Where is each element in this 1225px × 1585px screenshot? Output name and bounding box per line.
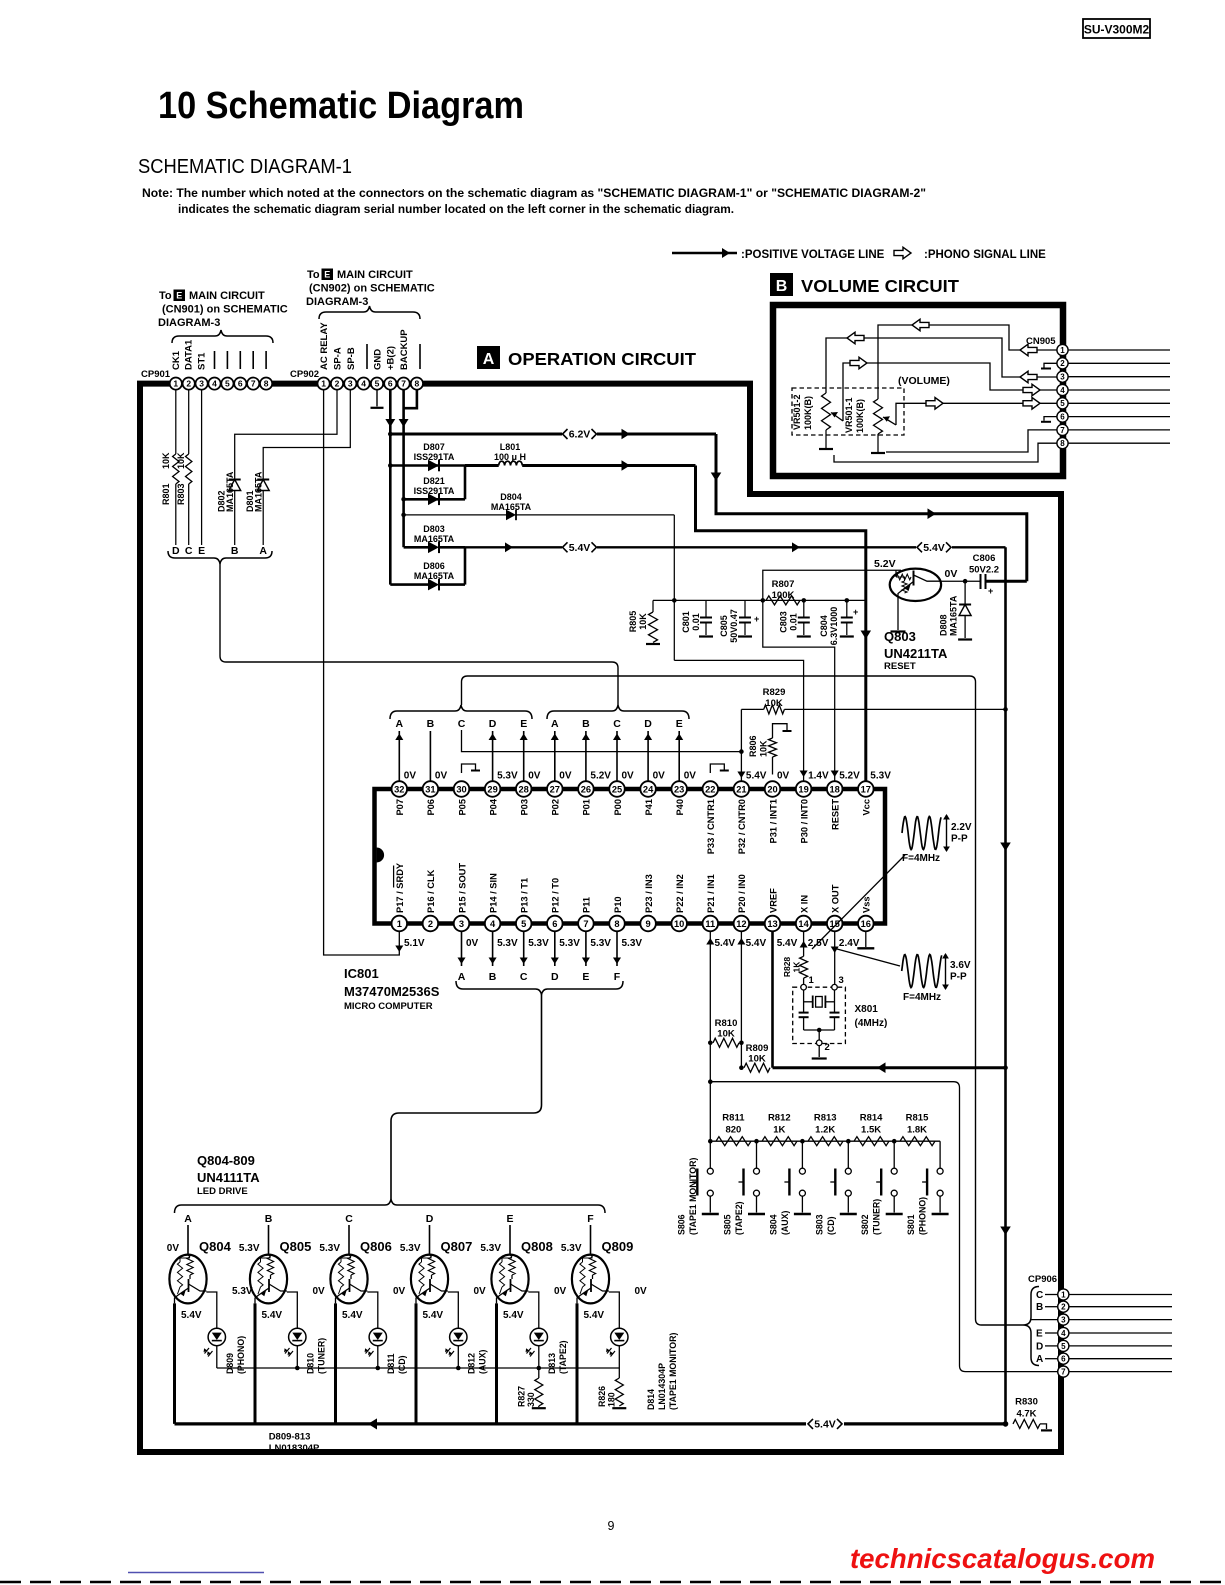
svg-text:5: 5	[1061, 1342, 1066, 1351]
svg-text:1: 1	[397, 919, 402, 929]
svg-text::POSITIVE VOLTAGE LINE: :POSITIVE VOLTAGE LINE	[741, 249, 885, 261]
wire bracket1 to CP906 brace	[462, 676, 1024, 1325]
diode D804	[401, 513, 406, 518]
svg-text:(CD): (CD)	[826, 1216, 836, 1235]
svg-text:MA165TA: MA165TA	[225, 471, 235, 512]
svg-text:0V: 0V	[167, 1243, 180, 1254]
model label SU-V300M2	[1083, 19, 1150, 38]
svg-text:R813: R813	[814, 1113, 837, 1124]
svg-text:50V2.2: 50V2.2	[969, 565, 999, 576]
svg-text:10K: 10K	[638, 613, 648, 630]
svg-text:5: 5	[521, 919, 526, 929]
diode D802	[235, 390, 337, 479]
wire reset to pin18	[763, 600, 835, 781]
svg-text:CP906: CP906	[1028, 1274, 1057, 1285]
svg-text:4: 4	[212, 379, 217, 389]
svg-text:DIAGRAM-3: DIAGRAM-3	[306, 296, 368, 308]
svg-text:9: 9	[646, 919, 651, 929]
svg-text:R827: R827	[517, 1386, 527, 1407]
svg-text:1.2K: 1.2K	[815, 1125, 835, 1136]
svg-text:(TAPE1 MONITOR): (TAPE1 MONITOR)	[668, 1333, 678, 1410]
diode D807	[388, 463, 393, 468]
svg-text:(TUNER): (TUNER)	[872, 1199, 882, 1235]
svg-text:(CN901) on SCHEMATIC: (CN901) on SCHEMATIC	[162, 304, 288, 316]
svg-text:19: 19	[798, 784, 808, 794]
svg-text:3: 3	[459, 919, 464, 929]
wire base 5.2V	[763, 570, 901, 600]
svg-text:8: 8	[1060, 439, 1065, 448]
svg-text:100K: 100K	[772, 590, 795, 601]
svg-text:DIAGRAM-3: DIAGRAM-3	[158, 317, 220, 329]
svg-text:Vcc: Vcc	[862, 799, 872, 816]
svg-text:0V: 0V	[622, 771, 635, 782]
microcomputer IC801 body	[375, 789, 886, 924]
svg-text:R807: R807	[772, 579, 795, 590]
capacitor C801	[672, 598, 677, 603]
svg-text:Q806: Q806	[360, 1239, 392, 1254]
svg-text:C: C	[185, 545, 193, 557]
svg-text:6.2V: 6.2V	[569, 429, 591, 441]
svg-text:A: A	[396, 718, 404, 730]
svg-text:1.4V: 1.4V	[808, 771, 829, 782]
svg-text:5.4V: 5.4V	[503, 1310, 524, 1321]
inductor L801	[465, 464, 499, 467]
svg-text:0V: 0V	[559, 771, 572, 782]
svg-text:2: 2	[186, 379, 191, 389]
wire pin13 VREF	[771, 931, 774, 1067]
svg-text:BACKUP: BACKUP	[399, 329, 410, 370]
svg-text:50V0.47: 50V0.47	[729, 609, 739, 643]
svg-text:OPERATION CIRCUIT: OPERATION CIRCUIT	[508, 349, 696, 369]
svg-text:30: 30	[456, 784, 466, 794]
svg-text:5.2V: 5.2V	[874, 558, 896, 570]
svg-text:R829: R829	[763, 687, 786, 698]
svg-text:5.3V: 5.3V	[870, 771, 891, 782]
resistor R806	[773, 724, 788, 738]
svg-text:5.3V: 5.3V	[561, 1243, 582, 1254]
wire CN905-1 to VR501-1	[878, 325, 1057, 399]
svg-text:D: D	[551, 971, 559, 983]
svg-text:5.3V: 5.3V	[239, 1243, 260, 1254]
svg-text:2: 2	[1060, 359, 1065, 368]
svg-text:21: 21	[736, 784, 746, 794]
svg-text:8: 8	[415, 379, 420, 389]
svg-text:3: 3	[1061, 1315, 1066, 1324]
svg-text:P06: P06	[426, 799, 436, 816]
svg-text:C801: C801	[681, 611, 691, 633]
svg-text:RESET: RESET	[884, 661, 916, 672]
wire D807-D821 join	[464, 466, 467, 500]
svg-text:330: 330	[526, 1392, 536, 1407]
svg-text:10K: 10K	[759, 740, 769, 757]
svg-text:B: B	[427, 718, 435, 730]
svg-text:5.4V: 5.4V	[584, 1310, 605, 1321]
svg-text:To: To	[159, 290, 172, 302]
svg-text:F: F	[614, 971, 621, 983]
svg-text:CK1: CK1	[171, 350, 182, 370]
svg-text:1.8K: 1.8K	[907, 1125, 927, 1136]
svg-text:B: B	[582, 718, 590, 730]
svg-text:5.4V: 5.4V	[715, 938, 736, 949]
svg-text:R801: R801	[161, 483, 171, 505]
wire DCEBA to IC bracket2	[220, 564, 618, 705]
svg-text:4: 4	[1061, 1329, 1066, 1338]
svg-text:2: 2	[335, 379, 340, 389]
svg-text:5.3V: 5.3V	[559, 938, 580, 949]
svg-text:6: 6	[1060, 412, 1065, 421]
svg-text:P30 / INT0: P30 / INT0	[799, 799, 809, 843]
svg-text:3.6V: 3.6V	[950, 960, 971, 971]
svg-text:R826: R826	[597, 1386, 607, 1407]
resistor R829	[741, 708, 763, 710]
svg-text:0V: 0V	[945, 568, 958, 580]
svg-text:0V: 0V	[528, 771, 541, 782]
svg-text:P05: P05	[457, 799, 467, 816]
svg-text:X801: X801	[855, 1004, 879, 1015]
svg-text:MA165TA: MA165TA	[949, 595, 959, 636]
brace CP902	[319, 306, 420, 319]
resistor R814	[854, 1137, 889, 1146]
svg-text:P10: P10	[613, 896, 623, 913]
svg-text:R812: R812	[768, 1113, 791, 1124]
svg-text:1: 1	[1061, 1290, 1066, 1299]
resistor R815	[900, 1137, 935, 1146]
svg-text:C: C	[613, 718, 621, 730]
svg-text:2: 2	[825, 1042, 830, 1053]
svg-text:14: 14	[798, 919, 809, 929]
svg-text:D: D	[1036, 1341, 1043, 1352]
diode D821	[404, 498, 465, 501]
svg-text:UN4111TA: UN4111TA	[197, 1170, 260, 1185]
ground at CN905-6	[1044, 417, 1057, 421]
svg-text:9: 9	[608, 1519, 615, 1533]
svg-text:B: B	[489, 971, 497, 983]
svg-text:4.7K: 4.7K	[1016, 1409, 1036, 1420]
svg-text:(CD): (CD)	[397, 1355, 407, 1374]
svg-text:C: C	[345, 1213, 353, 1225]
diode D803	[404, 546, 428, 549]
svg-text:(PHONO): (PHONO)	[918, 1197, 928, 1235]
svg-text:IC801: IC801	[344, 966, 379, 981]
wire D804 output down	[673, 515, 675, 661]
svg-text:27: 27	[550, 784, 560, 794]
svg-text:D804: D804	[500, 492, 522, 502]
svg-text:P41: P41	[644, 799, 654, 816]
svg-text:B: B	[231, 545, 239, 557]
svg-text:A: A	[551, 718, 559, 730]
svg-text:3: 3	[199, 379, 204, 389]
svg-text:Q805: Q805	[280, 1239, 312, 1254]
svg-text:S802: S802	[860, 1214, 870, 1235]
switch S804 (AUX)	[801, 1141, 803, 1168]
svg-text:+: +	[853, 607, 858, 617]
svg-text:5.4V: 5.4V	[923, 542, 945, 554]
svg-text:VREF: VREF	[768, 888, 778, 913]
svg-text:E: E	[582, 971, 589, 983]
resistor R805	[649, 612, 658, 642]
brace DCEBA to wire	[168, 551, 272, 564]
svg-text:Vss: Vss	[862, 896, 872, 913]
svg-text:VR501-1: VR501-1	[844, 397, 854, 433]
section header A OPERATION CIRCUIT	[477, 346, 500, 369]
svg-text:5.1V: 5.1V	[404, 938, 425, 949]
svg-text:ST1: ST1	[197, 352, 208, 370]
svg-text:7: 7	[1061, 1367, 1066, 1376]
svg-text:P21 / IN1: P21 / IN1	[706, 874, 716, 913]
svg-text:7: 7	[401, 379, 406, 389]
svg-text:SCHEMATIC DIAGRAM-1: SCHEMATIC DIAGRAM-1	[138, 156, 352, 178]
svg-text:E: E	[676, 718, 683, 730]
svg-text:0V: 0V	[435, 771, 448, 782]
svg-text:MA165TA: MA165TA	[254, 471, 264, 512]
svg-text:F=4MHz: F=4MHz	[902, 853, 940, 864]
svg-text:+: +	[754, 614, 759, 624]
svg-text:5.3V: 5.3V	[528, 938, 549, 949]
svg-text:(TAPE2): (TAPE2)	[734, 1201, 744, 1235]
volume circuit box	[773, 305, 1063, 476]
diode D808	[964, 581, 966, 604]
wire pin15 X OUT	[834, 931, 836, 984]
pointer to X OUT	[837, 949, 900, 966]
LED D812 (AUX)	[450, 1328, 467, 1345]
potentiometer VR501-2	[822, 393, 831, 430]
svg-text:D: D	[644, 718, 652, 730]
section header B VOLUME CIRCUIT	[770, 273, 793, 296]
svg-text:MA165TA: MA165TA	[414, 571, 455, 581]
connector CP902 pins	[318, 378, 330, 390]
svg-text:29: 29	[487, 784, 497, 794]
svg-text:MICRO COMPUTER: MICRO COMPUTER	[344, 1001, 433, 1012]
svg-text:P33 / CNTR1: P33 / CNTR1	[706, 799, 716, 854]
wire CN905-8	[834, 443, 1057, 462]
svg-text:MAIN CIRCUIT: MAIN CIRCUIT	[337, 269, 413, 281]
svg-text:C805: C805	[719, 615, 729, 637]
svg-text:P03: P03	[520, 799, 530, 816]
crystal load capacitors	[799, 1012, 809, 1014]
svg-text:5.3V: 5.3V	[497, 938, 518, 949]
svg-text:5.4V: 5.4V	[569, 542, 591, 554]
svg-text:F: F	[587, 1213, 594, 1225]
svg-text:D813: D813	[547, 1353, 557, 1374]
legend phono signal line	[894, 247, 911, 259]
resistor R803	[188, 390, 190, 454]
svg-text:0V: 0V	[393, 1286, 406, 1297]
svg-text:5.4V: 5.4V	[342, 1310, 363, 1321]
svg-text:2: 2	[428, 919, 433, 929]
svg-text:5: 5	[1060, 399, 1065, 408]
pull-up symbol at pin22	[710, 764, 724, 773]
svg-text:X OUT: X OUT	[831, 884, 841, 913]
switch S806 (TAPE1 MONITOR)	[709, 1141, 711, 1168]
svg-text:17: 17	[861, 784, 871, 794]
svg-text:P16 / CLK: P16 / CLK	[426, 869, 436, 913]
brace A-F to LED drive	[456, 981, 623, 995]
svg-text:0V: 0V	[635, 1286, 648, 1297]
svg-text:B: B	[265, 1213, 273, 1225]
svg-text:16: 16	[861, 919, 871, 929]
pull-up symbol at pin30	[462, 764, 476, 773]
svg-text:E: E	[520, 718, 527, 730]
wire pin12	[740, 931, 742, 1067]
svg-text:technicscatalogus.com: technicscatalogus.com	[850, 1543, 1155, 1574]
svg-text:B: B	[1036, 1302, 1043, 1313]
svg-text:C: C	[458, 718, 466, 730]
wire pin1 SRDY to CP902-1	[324, 390, 400, 955]
svg-text:100 μ H: 100 μ H	[494, 452, 526, 462]
svg-text:10K: 10K	[765, 698, 783, 709]
svg-text:4: 4	[490, 919, 496, 929]
svg-text:P02: P02	[551, 799, 561, 816]
svg-text:R830: R830	[1015, 1397, 1038, 1408]
LED D810 (TUNER)	[289, 1328, 306, 1345]
svg-text:CN905: CN905	[1026, 336, 1056, 347]
svg-text:26: 26	[581, 784, 591, 794]
svg-text:20: 20	[767, 784, 777, 794]
svg-text:5.4V: 5.4V	[814, 1419, 836, 1431]
power line B+ to IC Vcc	[696, 466, 866, 782]
svg-text:10K: 10K	[748, 1054, 766, 1065]
switch S802 (TUNER)	[893, 1141, 895, 1168]
svg-text:5: 5	[225, 379, 230, 389]
resistor R810	[708, 1041, 713, 1046]
IC bottom letters A-F	[461, 931, 463, 966]
svg-text:D821: D821	[423, 476, 445, 486]
svg-text:23: 23	[674, 784, 684, 794]
svg-text:D808: D808	[939, 614, 949, 636]
SRDY overline	[393, 866, 395, 888]
svg-text:6.3V1000: 6.3V1000	[829, 607, 839, 646]
svg-text:3: 3	[348, 379, 353, 389]
svg-text:Q803: Q803	[884, 629, 916, 644]
resistor R812	[762, 1137, 797, 1146]
svg-text:5.4V: 5.4V	[423, 1310, 444, 1321]
svg-text:1: 1	[1060, 346, 1065, 355]
svg-text:C804: C804	[819, 615, 829, 637]
svg-text:32: 32	[394, 784, 404, 794]
svg-text::PHONO SIGNAL LINE: :PHONO SIGNAL LINE	[924, 249, 1046, 261]
svg-text:R828: R828	[782, 957, 792, 978]
svg-text:D803: D803	[423, 524, 445, 534]
svg-text:7: 7	[1060, 426, 1065, 435]
svg-text:Note: The number which noted a: Note: The number which noted at the conn…	[142, 186, 926, 200]
svg-text:+: +	[988, 586, 993, 596]
svg-text:R811: R811	[722, 1113, 745, 1124]
svg-text:R809: R809	[746, 1043, 769, 1054]
svg-text:5: 5	[375, 379, 380, 389]
svg-text:D806: D806	[423, 561, 445, 571]
svg-text:D810: D810	[306, 1353, 316, 1374]
svg-text:0V: 0V	[474, 1286, 487, 1297]
svg-text:L801: L801	[500, 442, 521, 452]
wire CN905-3 to VR501-2	[826, 338, 1057, 393]
svg-text:5.3V: 5.3V	[319, 1243, 340, 1254]
svg-text:UN4211TA: UN4211TA	[884, 646, 948, 661]
svg-text:P32 / CNTR0: P32 / CNTR0	[737, 799, 747, 854]
svg-text:indicates the schematic diagra: indicates the schematic diagram serial n…	[178, 202, 734, 216]
svg-text:D809-813: D809-813	[269, 1432, 311, 1443]
svg-text:5.2V: 5.2V	[590, 771, 611, 782]
svg-text:P11: P11	[582, 897, 592, 913]
svg-text:D807: D807	[423, 442, 445, 452]
power line 5.4V	[465, 546, 562, 548]
svg-text:To: To	[307, 269, 320, 281]
svg-text:5.3V: 5.3V	[400, 1243, 421, 1254]
svg-text:5.4V: 5.4V	[746, 938, 767, 949]
svg-text:VOLUME CIRCUIT: VOLUME CIRCUIT	[801, 276, 959, 296]
svg-text:8: 8	[614, 919, 619, 929]
svg-text:(4MHz): (4MHz)	[855, 1018, 888, 1029]
svg-text:0V: 0V	[313, 1286, 326, 1297]
svg-text:1: 1	[173, 379, 178, 389]
svg-text:P07: P07	[395, 799, 405, 816]
wire CP902-7	[402, 390, 405, 547]
IC bracket group 2 letters A-E	[547, 705, 689, 719]
waveform 2.2V P-P	[902, 817, 941, 850]
svg-text:S801: S801	[906, 1214, 916, 1235]
ground CP902-5	[376, 390, 378, 406]
crystal X801 dashed box	[793, 987, 846, 1043]
svg-text:D: D	[426, 1213, 434, 1225]
svg-text:A: A	[184, 1213, 192, 1225]
svg-text:A: A	[483, 351, 495, 368]
svg-text:11: 11	[705, 919, 715, 929]
resistor R809	[739, 1065, 744, 1070]
svg-text:CP901: CP901	[141, 369, 171, 380]
svg-text:D814: D814	[646, 1389, 656, 1410]
svg-text:10 Schematic Diagram: 10 Schematic Diagram	[158, 85, 524, 127]
ground pin16 Vss	[865, 931, 867, 947]
wire CN905-7	[886, 430, 1057, 452]
svg-text:LED DRIVE: LED DRIVE	[197, 1186, 248, 1197]
wire pin11	[709, 931, 711, 1141]
wire CP901-3 to E	[201, 390, 203, 545]
wire pin11 branch to CP906-7	[708, 1079, 713, 1084]
switch S803 (CD)	[847, 1141, 849, 1168]
svg-text:0V: 0V	[684, 771, 697, 782]
svg-text:+B(2): +B(2)	[386, 346, 397, 370]
svg-text:P01: P01	[582, 799, 592, 816]
wire CP902-6 +B	[389, 390, 392, 585]
connector CP901 pins	[170, 378, 182, 390]
diode D801	[263, 390, 350, 479]
footer link line	[128, 1572, 264, 1574]
brace CP901	[172, 330, 273, 343]
svg-text:P-P: P-P	[951, 834, 968, 845]
resistor R827	[535, 1378, 543, 1406]
svg-text:0V: 0V	[777, 771, 790, 782]
svg-text:(VOLUME): (VOLUME)	[898, 375, 950, 387]
svg-text:P40: P40	[675, 799, 685, 816]
svg-text:C806: C806	[973, 553, 996, 564]
svg-text:5.3V: 5.3V	[622, 938, 643, 949]
svg-text:GND: GND	[372, 349, 383, 370]
svg-text:A: A	[1036, 1354, 1043, 1365]
svg-text:7: 7	[251, 379, 256, 389]
svg-text:S803: S803	[814, 1214, 824, 1235]
IC top pin wires and voltages	[398, 731, 400, 781]
resistor R813	[808, 1137, 843, 1146]
svg-text:P00: P00	[613, 799, 623, 816]
svg-text:22: 22	[705, 784, 715, 794]
svg-text:(TAPE1 MONITOR): (TAPE1 MONITOR)	[688, 1158, 698, 1235]
svg-text:6: 6	[238, 379, 243, 389]
svg-text:R810: R810	[715, 1018, 738, 1029]
waveform 3.6V P-P	[902, 955, 942, 988]
svg-text:P12 / T0: P12 / T0	[551, 878, 561, 913]
wire letter C to pin21	[462, 730, 742, 752]
svg-text:D: D	[489, 718, 497, 730]
IC801 notch	[377, 848, 385, 863]
